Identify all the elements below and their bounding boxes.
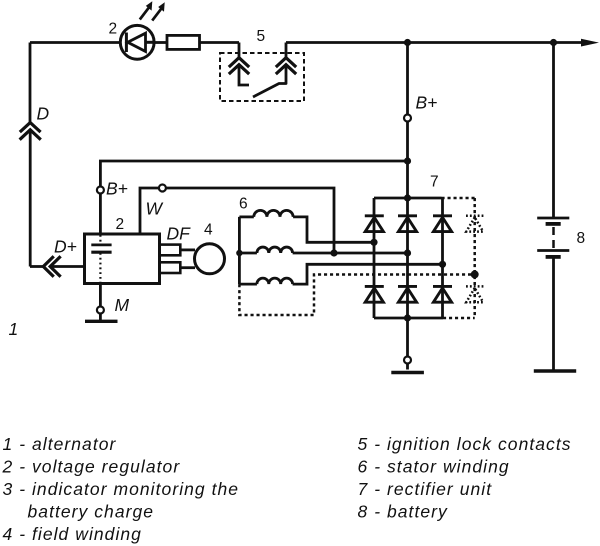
svg-text:6: 6 — [239, 196, 248, 213]
svg-text:4: 4 — [204, 222, 213, 239]
svg-text:battery charge: battery charge — [28, 502, 155, 522]
svg-text:2: 2 — [116, 216, 125, 233]
svg-text:M: M — [115, 295, 130, 315]
svg-text:8 - battery: 8 - battery — [358, 502, 449, 522]
svg-text:5: 5 — [257, 28, 266, 45]
svg-text:3 - indicator monitoring the: 3 - indicator monitoring the — [3, 479, 240, 499]
svg-text:B+: B+ — [106, 179, 128, 199]
svg-text:1 - alternator: 1 - alternator — [3, 434, 117, 454]
svg-text:5 - ignition lock contacts: 5 - ignition lock contacts — [358, 434, 572, 454]
svg-text:D: D — [37, 104, 50, 124]
svg-text:D+: D+ — [54, 237, 77, 257]
svg-text:6 - stator winding: 6 - stator winding — [358, 457, 510, 477]
svg-text:B+: B+ — [416, 93, 438, 113]
svg-text:7: 7 — [430, 174, 439, 191]
svg-text:7 - rectifier unit: 7 - rectifier unit — [358, 479, 493, 499]
svg-text:8: 8 — [577, 230, 586, 247]
svg-text:2: 2 — [109, 20, 118, 37]
svg-text:2 - voltage regulator: 2 - voltage regulator — [2, 457, 181, 477]
svg-text:DF: DF — [167, 224, 192, 244]
svg-text:1: 1 — [9, 319, 19, 339]
svg-text:4 - field winding: 4 - field winding — [3, 524, 142, 544]
svg-text:W: W — [146, 198, 164, 218]
